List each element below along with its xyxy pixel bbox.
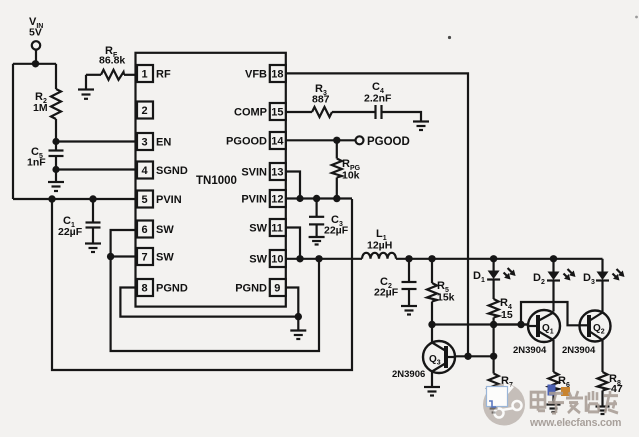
wire xyxy=(382,112,422,121)
svg-text:47: 47 xyxy=(611,383,623,395)
svg-text:887: 887 xyxy=(312,94,330,106)
node R5 junction xyxy=(428,255,435,262)
wire SW row pin10 xyxy=(286,258,362,260)
svg-text:2: 2 xyxy=(142,105,148,117)
wire PVIN row left xyxy=(13,198,137,200)
pin 7 xyxy=(137,248,153,265)
svg-text:1: 1 xyxy=(142,69,148,81)
node SW pin11 junction xyxy=(296,255,303,262)
svg-text:4: 4 xyxy=(142,165,149,177)
white sticker box xyxy=(487,387,508,407)
LED D1 arrows xyxy=(504,273,510,279)
svg-text:22µF: 22µF xyxy=(324,225,349,237)
svg-text:SW: SW xyxy=(249,254,267,266)
resistor R5 xyxy=(431,259,433,283)
inductor L1 xyxy=(362,253,396,259)
blue artifact glyph xyxy=(548,385,556,396)
watermark artifacts xyxy=(448,16,638,396)
svg-text:10: 10 xyxy=(271,254,283,266)
wire Q3 collector xyxy=(431,325,433,344)
node R5 bottom junction xyxy=(428,321,435,328)
ground R7 xyxy=(487,403,501,405)
node Vin junction xyxy=(32,60,39,67)
capacitor C3 xyxy=(316,199,318,217)
svg-text:12µH: 12µH xyxy=(367,240,392,252)
resistor R6 xyxy=(549,372,559,391)
svg-text:2N3904: 2N3904 xyxy=(562,345,596,356)
node inner loop junction xyxy=(315,255,322,262)
LED D2 arrows xyxy=(564,274,570,280)
svg-text:PGND: PGND xyxy=(235,283,267,295)
svg-text:15k: 15k xyxy=(437,292,455,304)
wire xyxy=(35,50,37,64)
node Q1 base junction xyxy=(517,321,524,328)
svg-text:86.8k: 86.8k xyxy=(99,55,125,67)
node SGND junction xyxy=(52,166,59,173)
wire Q3 base line xyxy=(455,355,494,357)
svg-text:2N3906: 2N3906 xyxy=(392,369,425,380)
svg-text:2.2nF: 2.2nF xyxy=(364,93,392,105)
svg-text:18: 18 xyxy=(271,69,283,81)
node PGND junction xyxy=(295,313,302,320)
pin 5 xyxy=(137,191,153,208)
node D2 top junction xyxy=(550,255,557,262)
pin 4 xyxy=(137,162,153,179)
diode D2 LED xyxy=(552,259,554,272)
svg-text:22µF: 22µF xyxy=(374,287,399,299)
resistor R2 xyxy=(51,89,61,119)
node Vin terminal xyxy=(32,41,40,49)
blue mark in sticker xyxy=(489,401,496,407)
svg-text:1nF: 1nF xyxy=(27,157,46,169)
capacitor C1 xyxy=(92,199,94,223)
watermark logo elecfans xyxy=(483,384,525,426)
resistor R8 xyxy=(598,372,608,391)
wire xyxy=(297,317,299,330)
resistor R3 xyxy=(312,107,332,117)
wire outer PVIN loop xyxy=(52,199,352,370)
wire xyxy=(332,111,376,113)
watermark text dianzifashaoyou xyxy=(531,391,618,413)
svg-text:13: 13 xyxy=(271,167,283,179)
wire VFB pin18 xyxy=(286,73,468,356)
svg-text:5: 5 xyxy=(142,194,148,206)
svg-text:7: 7 xyxy=(142,252,148,264)
speck xyxy=(448,36,451,39)
pin 10 xyxy=(270,250,286,267)
diode D1 LED xyxy=(493,259,495,271)
node PVIN outer loop xyxy=(48,195,55,202)
node PGOOD terminal xyxy=(356,136,364,144)
wire xyxy=(493,356,495,373)
resistor RF xyxy=(86,74,101,76)
wire pin3 EN xyxy=(56,140,137,142)
svg-text:SGND: SGND xyxy=(156,165,188,177)
svg-text:SW: SW xyxy=(156,252,174,264)
diode D3 LED xyxy=(601,259,603,272)
node C2 junction xyxy=(405,255,412,262)
svg-text:www.elecfans.com: www.elecfans.com xyxy=(529,417,621,429)
svg-text:12: 12 xyxy=(271,194,283,206)
svg-text:PGOOD: PGOOD xyxy=(226,136,267,148)
svg-text:EN: EN xyxy=(156,137,171,149)
wire xyxy=(493,325,495,357)
wire SW pin7 xyxy=(111,255,136,257)
pin 11 xyxy=(270,219,286,236)
ground below C1 xyxy=(85,242,101,244)
svg-text:22µF: 22µF xyxy=(58,226,83,238)
ground below C5 xyxy=(48,181,64,183)
pin 2 xyxy=(137,102,153,119)
node PGOOD junction xyxy=(333,137,340,144)
wire COMP pin15 xyxy=(286,111,312,113)
svg-text:1M: 1M xyxy=(33,102,48,114)
capacitor C5 xyxy=(55,142,57,151)
pin 13 xyxy=(270,163,286,180)
node SVIN junction xyxy=(296,195,303,202)
pin 6 xyxy=(137,221,153,238)
svg-text:VFB: VFB xyxy=(245,69,267,81)
pin 1 xyxy=(137,65,153,82)
node D1 top junction xyxy=(490,255,497,262)
wire Q3 emitter to ground xyxy=(431,372,433,387)
ground for RF xyxy=(85,75,87,89)
wire Q1 emitter xyxy=(552,340,554,372)
wire xyxy=(55,170,57,183)
svg-text:3: 3 xyxy=(142,137,148,149)
transistor Q2 xyxy=(580,311,611,342)
pin 9 xyxy=(270,279,286,296)
resistor RPG xyxy=(336,140,338,158)
pin 8 xyxy=(137,279,153,296)
ground below C3 xyxy=(309,236,325,238)
wire Q1 base xyxy=(494,323,528,325)
wire PGND pin9 xyxy=(286,288,299,317)
wire SW pin11 xyxy=(286,228,300,259)
svg-text:9: 9 xyxy=(274,283,280,295)
node EN junction xyxy=(52,138,59,145)
wire inner SW loop xyxy=(111,257,319,352)
svg-text:10k: 10k xyxy=(342,170,360,182)
resistor R4 xyxy=(489,299,499,318)
node VFB feedback junction xyxy=(464,353,471,360)
svg-text:PVIN: PVIN xyxy=(156,194,182,206)
svg-text:PVIN: PVIN xyxy=(241,194,267,206)
wire Q2 emitter xyxy=(601,340,603,372)
svg-text:TN1000: TN1000 xyxy=(196,175,237,187)
svg-text:15: 15 xyxy=(501,309,513,321)
svg-text:PGND: PGND xyxy=(156,283,188,295)
svg-text:11: 11 xyxy=(271,223,283,235)
wire SW output row xyxy=(396,258,603,260)
wire xyxy=(13,63,56,65)
orange artifact glyph xyxy=(561,387,570,396)
ground PGND xyxy=(290,329,306,331)
pin 15 xyxy=(270,103,286,120)
wire PGOOD pin14 xyxy=(286,139,356,141)
svg-text:RF: RF xyxy=(156,69,171,81)
pin 18 xyxy=(270,65,286,82)
pin 3 xyxy=(137,133,153,150)
op-amp ... IC U1 TN1000 body xyxy=(136,53,286,307)
wire SVIN pin13 xyxy=(286,172,300,199)
svg-text:2N3904: 2N3904 xyxy=(513,345,547,356)
svg-text:SVIN: SVIN xyxy=(241,167,267,179)
svg-text:8: 8 xyxy=(142,283,148,295)
wire xyxy=(55,119,57,142)
node D1 leg junction xyxy=(490,321,497,328)
resistor R7 xyxy=(489,374,499,393)
wire base bypass to Q2 xyxy=(521,302,580,325)
wire xyxy=(12,64,14,199)
ground after C4 xyxy=(413,120,429,122)
svg-text:15: 15 xyxy=(271,107,283,119)
ground below C2 xyxy=(401,305,417,307)
svg-text:14: 14 xyxy=(271,136,284,148)
wire xyxy=(55,64,57,89)
svg-text:PGOOD: PGOOD xyxy=(367,136,410,148)
svg-text:6: 6 xyxy=(142,224,148,236)
wire base drive line xyxy=(432,323,528,325)
svg-text:5V: 5V xyxy=(29,27,42,39)
wire SW pin6 xyxy=(111,230,136,257)
svg-text:COMP: COMP xyxy=(234,107,267,119)
transistor Q1 xyxy=(528,310,560,342)
ground R6 xyxy=(547,403,561,405)
transistor Q3 xyxy=(423,341,455,373)
node C3 junction xyxy=(313,195,320,202)
node RPG junction xyxy=(333,195,340,202)
svg-text:SW: SW xyxy=(156,224,174,236)
LED D3 arrows xyxy=(613,274,619,280)
ground R8 xyxy=(596,405,610,407)
wire PVIN row right xyxy=(286,197,352,199)
svg-text:SW: SW xyxy=(249,223,267,235)
pin 14 xyxy=(270,132,286,149)
node SW pin7 junction xyxy=(107,253,114,260)
wire pin4 SGND xyxy=(56,168,137,170)
pin 12 xyxy=(270,190,286,207)
node base junction xyxy=(490,353,497,360)
ground Q3 xyxy=(424,386,440,388)
capacitor C4 xyxy=(374,105,376,119)
capacitor C2 xyxy=(408,259,410,282)
node C1 junction xyxy=(89,195,96,202)
wire PGND pin8 xyxy=(120,288,298,317)
